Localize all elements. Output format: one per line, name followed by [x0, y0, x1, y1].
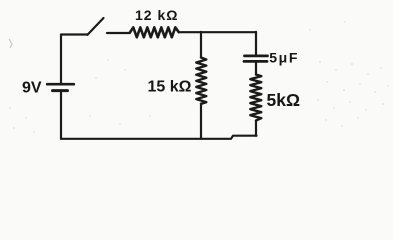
resistor R1 12 kOhm	[130, 27, 179, 37]
wire bottom rail	[61, 136, 257, 139]
wire top rail 12k to right corner	[179, 31, 256, 33]
svg-text:5kΩ: 5kΩ	[267, 90, 301, 110]
svg-text:9V: 9V	[22, 80, 42, 97]
capacitor C1 5uF top plate	[245, 55, 268, 58]
switch S1 (open)	[88, 18, 104, 35]
wire capacitor to 5k	[255, 62, 257, 75]
capacitor C1 5uF bottom plate	[244, 60, 267, 63]
battery BT1 short plate	[53, 89, 68, 92]
resistor R3 5 kOhm	[250, 75, 261, 121]
svg-text:12 kΩ: 12 kΩ	[135, 7, 178, 23]
wire 5k bottom to rail	[255, 121, 257, 136]
node A drop wire to 15k	[200, 32, 202, 58]
faint left-edge pencil mark	[9, 39, 12, 48]
resistor R2 15 kOhm	[196, 58, 206, 104]
wire 15k bottom to rail	[200, 104, 202, 139]
wire battery - to bottom rail	[60, 91, 62, 139]
battery BT1 long plate	[47, 83, 74, 86]
wire left vertical top (battery + to switch)	[61, 35, 88, 84]
scan speckle noise (decorative)	[9, 21, 388, 132]
svg-text:15 kΩ: 15 kΩ	[148, 79, 192, 96]
svg-text:5μF: 5μF	[269, 50, 299, 66]
wire switch contact to 12k resistor	[107, 32, 130, 34]
wire right vertical to capacitor	[255, 32, 257, 55]
